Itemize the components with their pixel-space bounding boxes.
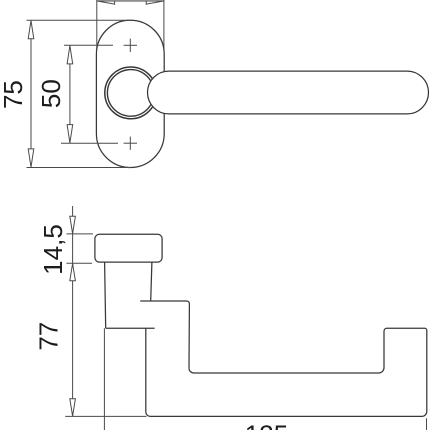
dimension 50: extension line bottom [61, 142, 118, 144]
wire: clipped top width-dimension line [97, 0, 165, 2]
dimension 14,5: arrow down (above line) [70, 216, 76, 233]
dimension 77: arrow up (below line) [70, 264, 76, 281]
dimension 75: arrow up [28, 21, 34, 39]
dimension 75: extension line bottom [27, 167, 131, 169]
dimension 14,5 / 77 shared dimension line [72, 206, 74, 416]
svg-text:50: 50 [36, 79, 66, 108]
svg-text:135: 135 [245, 419, 288, 430]
dimension 50: extension line top [64, 44, 113, 46]
neck bearing ring inner circle [107, 70, 154, 117]
wire: left extension line from clipped dimension down to rosette [96, 0, 98, 57]
shared extension line rosette bottom [66, 262, 92, 264]
dimension 14,5: extension line top [66, 233, 93, 235]
neck left edge [105, 262, 106, 328]
neck bottom edge [106, 327, 155, 329]
dimension 75: extension line top [27, 19, 131, 21]
neck right edge [151, 262, 152, 301]
dimension 77: arrow down at grip bottom [70, 399, 76, 416]
arrowhead left (bottom half, clipped) [97, 1, 115, 5]
svg-text:77: 77 [33, 322, 63, 351]
dimension 77: extension line bottom [65, 415, 146, 417]
arrowhead right (bottom half, clipped) [146, 1, 164, 5]
oval rosette (front view) [96, 20, 164, 167]
dimension 135: left extension line [103, 328, 105, 430]
dimension 50: dimension line [69, 45, 71, 143]
screw hole cross top [124, 39, 137, 52]
neck bearing ring outer circle [105, 67, 157, 119]
svg-text:14,5: 14,5 [38, 224, 68, 275]
dimension 135: right extension line [426, 418, 428, 430]
lever handle (front view, covers ring/rosette) [148, 71, 429, 114]
dimension 75: dimension line [30, 20, 32, 167]
wire: right extension line from clipped dimension down to rosette [163, 0, 165, 57]
dimension 50: arrow down [67, 125, 73, 143]
screw hole cross bottom [124, 137, 137, 150]
dimension 50: arrow up [67, 46, 73, 64]
lever grip outline (side profile) [146, 328, 427, 416]
dimension 75: arrow down [28, 149, 34, 167]
svg-text:75: 75 [0, 80, 28, 109]
rosette (side profile) [95, 234, 162, 262]
step ledge below neck [140, 301, 189, 368]
